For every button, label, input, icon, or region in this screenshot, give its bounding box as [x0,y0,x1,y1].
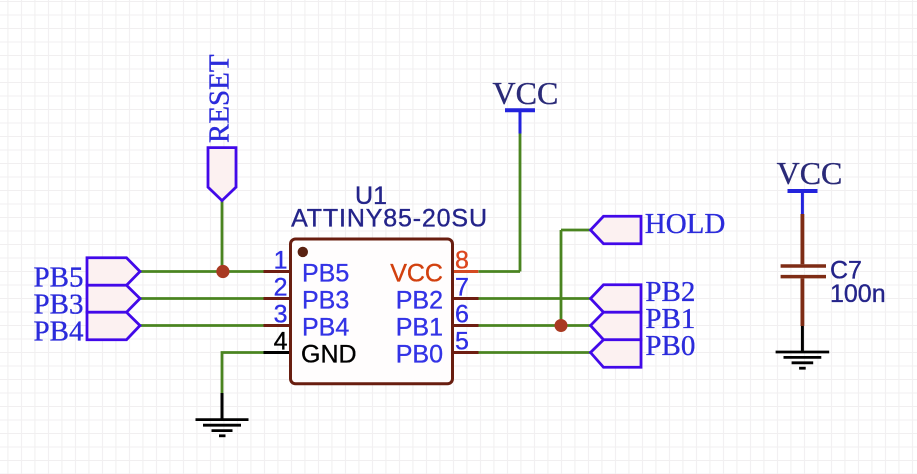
svg-text:ATTINY85-20SU: ATTINY85-20SU [291,205,488,233]
svg-text:PB3: PB3 [302,287,349,315]
svg-text:RESET: RESET [204,54,236,143]
svg-text:5: 5 [455,328,469,356]
svg-text:7: 7 [455,274,469,302]
svg-text:PB4: PB4 [302,314,349,342]
svg-text:GND: GND [301,341,357,369]
svg-text:4: 4 [274,328,288,356]
svg-text:1: 1 [274,247,288,275]
svg-text:PB5: PB5 [302,260,349,288]
svg-text:PB0: PB0 [645,330,695,362]
svg-text:VCC: VCC [493,75,559,111]
svg-text:VCC: VCC [777,155,843,191]
svg-text:PB2: PB2 [396,287,443,315]
svg-text:PB1: PB1 [396,314,443,342]
svg-text:PB4: PB4 [34,316,84,348]
svg-text:2: 2 [274,274,288,302]
svg-text:PB0: PB0 [396,341,443,369]
svg-text:6: 6 [455,301,469,329]
svg-text:VCC: VCC [390,260,443,288]
svg-text:8: 8 [455,247,469,275]
svg-text:3: 3 [274,301,288,329]
svg-text:100n: 100n [830,280,886,308]
svg-text:HOLD: HOLD [645,208,726,240]
